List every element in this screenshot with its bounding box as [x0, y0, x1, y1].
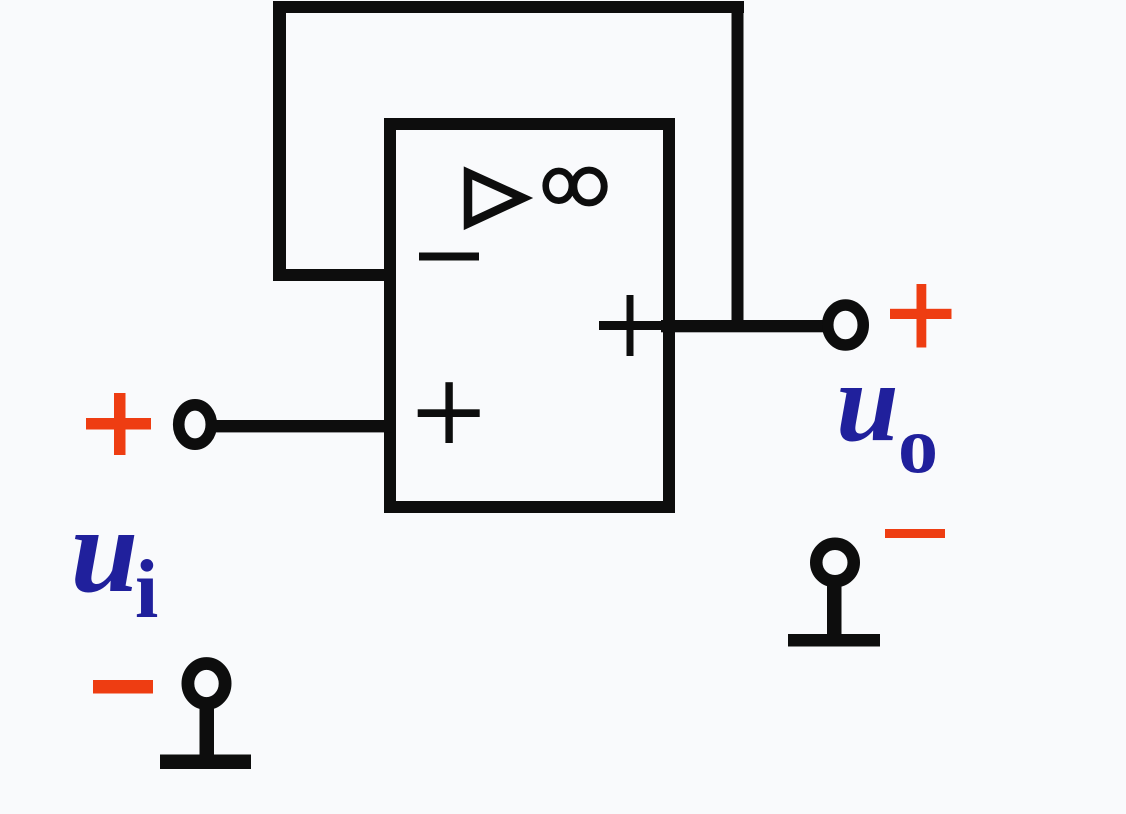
non-inverting input plus sign — [418, 382, 480, 443]
svg-text:u: u — [836, 340, 899, 465]
terminal output positive — [828, 305, 864, 345]
input polarity plus (red) — [86, 393, 151, 455]
input polarity minus (red) — [93, 680, 153, 694]
terminal input positive — [179, 405, 212, 444]
wire feedback to inverting input — [273, 269, 396, 281]
op-amp U1 body — [390, 124, 669, 507]
op-amp gain triangle — [468, 173, 523, 224]
wire feedback top — [273, 1, 744, 13]
terminal input negative — [160, 664, 251, 770]
svg-text:u: u — [71, 483, 139, 618]
wire output — [661, 320, 823, 332]
output polarity minus (red) — [885, 529, 945, 538]
label uo — [836, 340, 938, 490]
wire feedback right vertical — [732, 1, 744, 332]
wire input — [214, 420, 392, 432]
label ui — [71, 483, 159, 636]
output polarity plus (red) — [890, 284, 952, 348]
inverting input minus sign — [419, 253, 479, 261]
wire feedback left vertical — [273, 1, 286, 280]
output plus sign inside op-amp — [599, 295, 661, 356]
svg-text:o: o — [898, 402, 938, 490]
svg-text:i: i — [135, 543, 158, 636]
terminal output negative — [788, 544, 880, 647]
infinite gain symbol — [546, 170, 605, 203]
